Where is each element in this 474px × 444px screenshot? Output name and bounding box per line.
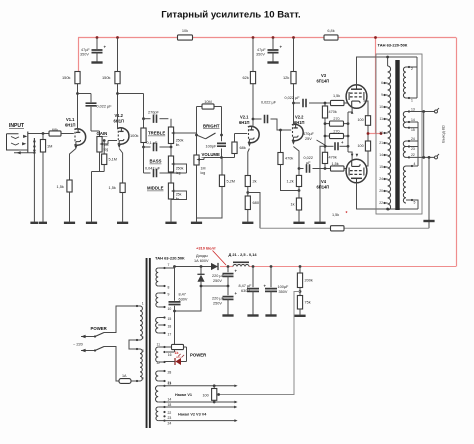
svg-text:1M: 1M — [201, 167, 206, 171]
resistor 10k (B+ rail) — [178, 35, 193, 40]
primary pin 4 — [136, 380, 140, 382]
svg-text:TREBLE: TREBLE — [148, 131, 165, 136]
svg-text:62k: 62k — [243, 75, 249, 80]
svg-text:5,1M: 5,1M — [109, 158, 117, 162]
svg-text:1M: 1M — [47, 144, 52, 149]
svg-text:log: log — [201, 171, 206, 175]
LED POWER indicator — [186, 347, 188, 362]
svg-text:14: 14 — [379, 153, 383, 157]
tube V1.1 6Н1П (triode) — [74, 129, 85, 149]
svg-text:22: 22 — [411, 153, 415, 157]
power transformer primary winding upper — [140, 306, 142, 340]
wire: V3 anode to transformer — [357, 57, 418, 85]
svg-text:1,5k: 1,5k — [333, 94, 340, 98]
wire: tone left rail — [143, 147, 145, 173]
svg-text:V2.1: V2.1 — [240, 115, 249, 120]
svg-text:*: * — [346, 211, 348, 217]
resistor 150k (V1.2 anode load) — [115, 72, 120, 84]
svg-text:100pF: 100pF — [206, 145, 217, 149]
svg-text:220 µF: 220 µF — [212, 297, 225, 301]
svg-text:INPUT: INPUT — [9, 123, 24, 129]
svg-text:75k: 75k — [305, 301, 311, 305]
svg-text:15: 15 — [379, 165, 383, 169]
svg-text:зел: зел — [176, 355, 181, 359]
ground (V2.2 cathode) — [293, 222, 304, 224]
svg-text:POWER: POWER — [190, 353, 207, 358]
wire: primary pin 4 via fuse — [104, 347, 119, 382]
svg-text:11: 11 — [156, 343, 160, 347]
capacitor 470µF 25V (cathode bypass) — [325, 145, 334, 147]
ground (47µF #1) — [91, 61, 102, 63]
svg-text:POWER: POWER — [91, 326, 108, 331]
svg-text:12k: 12k — [283, 75, 289, 80]
svg-text:+: + — [280, 45, 283, 50]
resistor 100 (V4 screen) — [365, 141, 370, 151]
svg-text:220 µF: 220 µF — [212, 274, 225, 278]
svg-text:V1.1: V1.1 — [66, 117, 75, 122]
resistor 470k (V2.2 grid leak) — [280, 130, 282, 153]
svg-text:22: 22 — [168, 411, 172, 415]
output transformer secondary winding 24-22 — [403, 141, 406, 157]
svg-text:ТАН 63-220-50К: ТАН 63-220-50К — [378, 43, 408, 48]
svg-text:1,5k: 1,5k — [332, 162, 339, 166]
capacitor 270pF (treble) — [144, 118, 151, 120]
svg-text:150k: 150k — [102, 75, 110, 80]
resistor 100 (heater balance) — [213, 384, 216, 387]
wire: heater bias route — [219, 292, 300, 395]
svg-text:24: 24 — [379, 177, 383, 181]
svg-text:250k: 250k — [176, 167, 184, 171]
secondary winding 13-14 (heater V1) — [155, 386, 158, 402]
wire: BASS wiper link — [177, 164, 187, 173]
svg-text:15: 15 — [411, 128, 415, 132]
svg-text:Выход 8Ω: Выход 8Ω — [442, 125, 446, 143]
ground (tone stack) — [165, 222, 176, 224]
ground (divider) — [294, 315, 305, 317]
svg-text:5: 5 — [414, 201, 416, 205]
wire: secondary parallel link — [423, 112, 425, 158]
svg-text:24: 24 — [411, 137, 415, 141]
wire: speaker hot lead — [409, 111, 434, 113]
ground (bias network) — [314, 222, 325, 224]
resistor 1,5k (V1.1 cathode) — [67, 180, 72, 192]
svg-text:4: 4 — [142, 377, 144, 381]
capacitor 0,047 µF (mid) — [144, 172, 151, 174]
wire: heater V2-V4 line a — [165, 406, 235, 408]
output transformer secondary winding 4-5 — [403, 166, 406, 203]
capacitor 100µF 350V (PSU) — [270, 265, 273, 268]
switch BRIGHT — [195, 134, 198, 137]
input jack J1 — [7, 134, 19, 150]
svg-text:0,022 µF: 0,022 µF — [261, 101, 277, 105]
primary pin 1 — [136, 305, 140, 307]
secondary winding 15-17 — [156, 318, 159, 334]
svg-text:8,47 µF: 8,47 µF — [239, 284, 253, 288]
svg-text:22: 22 — [379, 201, 383, 205]
resistor 1k (V2.2 cathode lower) — [296, 198, 301, 210]
wire: V4 anode to transformer — [357, 183, 419, 209]
svg-text:0,022 µF: 0,022 µF — [97, 105, 113, 109]
wire: mains to primary pin 1 — [104, 306, 136, 333]
svg-text:6П14П: 6П14П — [317, 184, 330, 189]
svg-text:28: 28 — [168, 371, 172, 375]
resistor 470k (V4 grid leak) — [324, 164, 326, 169]
svg-text:20: 20 — [379, 189, 383, 193]
svg-text:21: 21 — [379, 141, 383, 145]
output transformer ТАН 63-220-50К box — [376, 54, 422, 214]
wire: V2.2 cathode — [293, 147, 299, 176]
wire: MIDDLE to ground — [170, 199, 172, 222]
wire: V1.1 anode — [77, 84, 79, 130]
resistor 100k (tone slope) — [143, 119, 145, 128]
diode Д1 1А 600V (rectifier) — [175, 266, 212, 268]
svg-text:0,047 µF: 0,047 µF — [145, 167, 161, 171]
pin 7 — [158, 267, 166, 269]
ground (V2.1 cathode) — [242, 222, 253, 224]
secondary winding 9-10 — [156, 293, 158, 307]
wire: V3 screen to 100 ohm — [364, 101, 369, 116]
resistor 1,5k * (feedback) — [331, 226, 345, 231]
capacitor 0,022 µF (bottom coupling to V4) — [299, 168, 304, 170]
capacitor 220 µF 250V (upper) — [227, 267, 229, 273]
node: 0,1µF row — [142, 146, 145, 149]
ground (GAIN) — [86, 222, 97, 224]
svg-text:270: 270 — [333, 117, 339, 121]
svg-text:6Н1П: 6Н1П — [239, 120, 250, 125]
svg-text:8: 8 — [168, 286, 170, 290]
wire: speaker common lead — [409, 156, 434, 158]
capacitor 8,47 µF 630V (PSU) — [252, 265, 255, 268]
resistor 1k (LED) — [165, 346, 172, 348]
svg-text:6Н1П: 6Н1П — [114, 118, 125, 123]
node: V1.2 anode junction — [116, 92, 119, 95]
wire: volume bottom to ground — [196, 165, 198, 222]
secondary winding 7-8 (HV) — [156, 268, 158, 286]
svg-text:1А: 1А — [122, 374, 127, 378]
svg-text:3: 3 — [142, 349, 144, 353]
resistor 270 (cathode bias lower) — [325, 135, 330, 137]
svg-text:Диоды: Диоды — [196, 254, 208, 258]
wire: V1.1 cathode — [70, 149, 76, 181]
svg-text:Накал V1: Накал V1 — [175, 393, 192, 397]
ground (100µF) — [265, 314, 276, 316]
node: wiper/5,1M junction — [103, 139, 106, 142]
node: V2.2 anode / top coupling — [292, 102, 295, 105]
svg-text:0,022: 0,022 — [304, 156, 314, 160]
tube V2.1 6Н1П (triode) — [248, 126, 259, 146]
wire: heater V1 line b — [165, 401, 235, 403]
svg-text:6: 6 — [381, 81, 383, 85]
ground (speaker common) — [423, 220, 434, 222]
svg-text:Д 21 - 2,5 - 0,14: Д 21 - 2,5 - 0,14 — [229, 252, 258, 257]
tube V2.2 6Н1П (triode) — [292, 124, 303, 144]
capacitor 220 µF 250V (lower) — [227, 285, 230, 288]
terminal: speaker + — [435, 110, 438, 113]
wire: jack sleeve to ground — [33, 153, 35, 222]
output transformer secondary winding 13-15 — [403, 112, 406, 128]
wire: red drop to output transformer tap — [375, 38, 377, 134]
svg-text:17: 17 — [168, 333, 172, 337]
svg-text:GAIN: GAIN — [97, 131, 108, 136]
wire: MIDDLE wiper link — [171, 191, 187, 200]
svg-text:100: 100 — [358, 144, 364, 148]
svg-text:+310 Волт: +310 Волт — [196, 246, 216, 251]
junction dots on B+ rail — [96, 36, 99, 39]
capacitor 100pF (bright) — [217, 143, 226, 146]
svg-text:7: 7 — [168, 263, 170, 267]
wire: bias rail right (cathodes) — [347, 112, 349, 152]
wire: red right-side B+ drop — [456, 38, 458, 267]
svg-text:9: 9 — [381, 93, 383, 97]
wire: speaker common to ground — [428, 157, 430, 228]
output transformer secondary winding 1-2 — [403, 67, 406, 98]
resistor 100 (V3 screen) — [365, 116, 370, 126]
wire: bias network to ground — [320, 146, 325, 222]
wire: HV winding pin 7 feed — [163, 267, 165, 269]
resistor 200k (bias divider) — [299, 265, 302, 268]
svg-text:47µF: 47µF — [81, 48, 90, 52]
switch POWER (double pole) — [81, 336, 95, 338]
svg-text:+: + — [104, 45, 107, 50]
capacitor 8,47 630V (across HV winding) — [173, 265, 176, 268]
svg-text:BASS: BASS — [150, 159, 162, 164]
svg-text:2k: 2k — [253, 179, 257, 184]
svg-text:47µF: 47µF — [257, 48, 266, 52]
wire: HV return to pin 16 — [166, 351, 175, 353]
svg-text:5,2M: 5,2M — [227, 180, 235, 184]
node: input / 1M junction — [42, 132, 45, 135]
tube V1.2 6Н1П (triode) — [118, 128, 129, 148]
wire: V3 cathode — [348, 107, 352, 113]
diode Д2 (doubler shunt) — [200, 267, 202, 275]
secondary winding 28-21 — [156, 371, 159, 381]
svg-text:10: 10 — [379, 105, 383, 109]
ground (VOLUME) — [191, 222, 202, 224]
resistor 5,2M (V2.1 grid leak) — [221, 158, 223, 176]
secondary winding LED (11-12) — [156, 347, 159, 362]
svg-text:1,5k: 1,5k — [332, 213, 339, 217]
svg-text:8,47: 8,47 — [179, 293, 186, 297]
svg-text:100: 100 — [358, 118, 364, 122]
node: V2.1 anode / coupling — [252, 118, 255, 121]
resistor 62k (V2.1 anode load) — [250, 72, 255, 84]
wire: V1.2 anode — [117, 84, 119, 130]
wire: TREBLE wiper to volume — [177, 132, 197, 134]
svg-text:470k: 470k — [329, 156, 337, 160]
svg-text:1А 600V: 1А 600V — [194, 259, 209, 263]
svg-text:25k: 25k — [176, 193, 182, 197]
wire: volume wiper line — [203, 158, 205, 160]
svg-text:150k: 150k — [62, 75, 70, 80]
svg-text:68k: 68k — [240, 145, 246, 150]
fuse 1А — [119, 379, 131, 384]
node: V2.2 cathode / bottom coupling — [298, 167, 301, 170]
svg-text:25V: 25V — [305, 137, 312, 141]
svg-text:250V: 250V — [213, 279, 222, 283]
svg-text:250k: 250k — [176, 139, 184, 143]
primary pin 2 — [136, 339, 140, 341]
svg-text:14: 14 — [411, 118, 415, 122]
capacitor 47µF 350V (second filter) — [272, 38, 274, 50]
ground (V1.1 cathode) — [64, 222, 75, 224]
svg-text:1,5k: 1,5k — [109, 185, 116, 190]
potentiometer TREBLE 250k lin — [170, 119, 172, 127]
svg-text:470k: 470k — [329, 110, 337, 114]
node: diode output — [200, 265, 203, 268]
ground (1M) — [39, 222, 47, 224]
capacitor 0,022µF (V1.1 to GAIN) — [78, 93, 92, 95]
wire: bias rail left — [324, 124, 326, 147]
svg-text:6П14П: 6П14П — [317, 78, 330, 83]
output transformer primary taps — [385, 82, 388, 84]
svg-text:11: 11 — [379, 117, 383, 121]
wire: V1.2 cathode to 1,5k — [119, 149, 122, 184]
wire: input signal — [28, 133, 49, 135]
svg-text:12: 12 — [379, 131, 383, 135]
output transformer primary winding (left) — [388, 66, 391, 210]
svg-text:VOLUME: VOLUME — [202, 152, 221, 157]
svg-text:ТАН 63-220.50К: ТАН 63-220.50К — [155, 256, 185, 261]
resistor 68k (grid stopper V1.1) — [49, 131, 61, 136]
resistor 2k (V2.1 cathode) — [245, 176, 250, 187]
ground (8,47µF) — [247, 314, 258, 316]
ground (V1.2 cathode) — [117, 222, 128, 224]
svg-text:270: 270 — [333, 129, 339, 133]
svg-text:µF: µF — [306, 161, 311, 165]
svg-text:1,5k: 1,5k — [57, 184, 64, 189]
svg-text:0,022 µF: 0,022 µF — [285, 96, 301, 100]
svg-text:Накал V2 V3 V4: Накал V2 V3 V4 — [178, 413, 207, 417]
svg-text:1: 1 — [142, 302, 144, 306]
wire: V2.1 anode — [252, 84, 254, 128]
wire: doubler midpoint — [201, 285, 228, 287]
wire: winding 1-2 link — [416, 57, 418, 98]
resistor 1,5k (V1.2 cathode) — [120, 183, 125, 193]
wire: volume network left rail — [196, 107, 198, 156]
node: tone stack top — [142, 117, 145, 120]
wire: GAIN bottom to ground — [99, 152, 101, 172]
junction dots bias network — [324, 122, 327, 125]
svg-text:10k: 10k — [182, 28, 188, 33]
potentiometer BASS 250k log — [170, 147, 172, 156]
svg-text:680: 680 — [253, 200, 260, 205]
svg-text:350V: 350V — [80, 53, 89, 57]
svg-text:14: 14 — [168, 398, 172, 402]
ground (47µF #2) — [267, 61, 278, 63]
ground (jack) — [30, 222, 38, 224]
resistor 680 (V2.1 cathode) — [245, 196, 250, 210]
svg-text:9: 9 — [168, 293, 170, 297]
wire: B+ red rail y=37 — [78, 37, 178, 39]
wire: V2.2 anode — [293, 84, 295, 126]
wire: NFB injection to 2k/680 junction — [248, 193, 260, 229]
wire: V1.2 anode to tone stack — [118, 93, 144, 95]
svg-text:270pF: 270pF — [148, 111, 159, 115]
resistor 1M (input load) — [42, 134, 44, 140]
capacitor 47µF 350V (first filter) — [96, 38, 98, 50]
svg-text:6,8k: 6,8k — [327, 28, 334, 33]
svg-text:630V: 630V — [241, 289, 250, 293]
svg-text:V1.2: V1.2 — [115, 113, 124, 118]
svg-text:V3: V3 — [321, 73, 327, 78]
svg-text:470k: 470k — [285, 157, 293, 161]
svg-text:200k: 200k — [305, 279, 313, 283]
wire: secondary series link — [417, 122, 419, 166]
svg-text:18: 18 — [168, 325, 172, 329]
svg-text:630V: 630V — [179, 297, 188, 301]
node: 470k V4 junction — [324, 167, 327, 170]
power transformer primary winding lower — [140, 349, 142, 381]
primary pin 3 — [136, 348, 140, 350]
svg-text:23: 23 — [168, 416, 172, 420]
wire: +310V red rail — [220, 266, 233, 268]
svg-text:~ 220: ~ 220 — [73, 341, 84, 346]
wire: V2.1 cathode — [248, 149, 250, 176]
svg-text:18: 18 — [168, 403, 172, 407]
svg-text:6Н1П: 6Н1П — [294, 120, 305, 125]
resistor 1,2k (V2.2 cathode upper) — [296, 175, 301, 186]
svg-text:12: 12 — [156, 361, 160, 365]
wire: heater V1 line a — [165, 385, 235, 387]
svg-text:V4: V4 — [321, 179, 327, 184]
output transformer core — [395, 60, 399, 210]
svg-text:13: 13 — [168, 381, 172, 385]
capacitor 0,1 µF (bass) — [144, 146, 151, 148]
wire: volume network right rail — [221, 107, 223, 142]
svg-text:16: 16 — [168, 353, 172, 357]
tube V4 6П14П (pentode, flipped) — [346, 159, 367, 183]
svg-text:10: 10 — [168, 307, 172, 311]
node: bias divider tap — [299, 290, 302, 293]
svg-text:MIDDLE: MIDDLE — [147, 186, 164, 191]
svg-text:10M: 10M — [204, 99, 212, 104]
svg-text:2: 2 — [411, 67, 413, 71]
svg-text:1,2k: 1,2k — [287, 180, 294, 184]
svg-text:23: 23 — [411, 147, 415, 151]
pin 8 — [158, 285, 163, 287]
node: 2k/680 junction (NFB point) — [246, 191, 249, 194]
resistor 5,1M (V1.2 grid leak) — [103, 141, 105, 155]
svg-text:250V: 250V — [213, 301, 222, 305]
resistor 75k (bias divider) — [297, 296, 302, 310]
svg-text:15: 15 — [168, 317, 172, 321]
terminal: speaker - — [435, 156, 438, 159]
resistor 68k (V2.1 grid stopper) — [234, 154, 236, 158]
resistor 10M (bright) — [197, 106, 203, 108]
tube V3 6П14П (pentode) — [346, 85, 367, 109]
wire: primary 2-3 jumper — [129, 340, 136, 349]
svg-text:13: 13 — [411, 107, 415, 111]
resistor 270 (cathode bias upper) — [325, 123, 330, 125]
node: 1,2k/1k junction — [298, 189, 301, 192]
capacitor 0,022µF (top coupling to V3) — [294, 102, 301, 104]
potentiometer VOLUME 1M log — [194, 155, 199, 165]
node: V1.1 anode / coupling — [76, 92, 79, 95]
svg-text:0,1 µF: 0,1 µF — [147, 141, 159, 145]
resistor 470k (V3 grid leak) — [324, 103, 326, 106]
svg-text:24: 24 — [168, 422, 172, 426]
resistor 1,5k (V3 grid stopper) — [331, 100, 345, 105]
svg-text:BRIGHT: BRIGHT — [203, 124, 220, 129]
svg-text:2: 2 — [142, 336, 144, 340]
node: 470k V3 junction — [324, 102, 327, 105]
svg-text:68k: 68k — [52, 127, 58, 132]
svg-text:6Н1П: 6Н1П — [65, 122, 76, 127]
node: screen supply (red) — [367, 132, 370, 135]
svg-text:100µF: 100µF — [278, 285, 290, 289]
capacitor 0,022 µF (V2.1 to V2.2) — [253, 118, 262, 120]
resistor 6,8k (B+ rail) — [324, 35, 338, 40]
